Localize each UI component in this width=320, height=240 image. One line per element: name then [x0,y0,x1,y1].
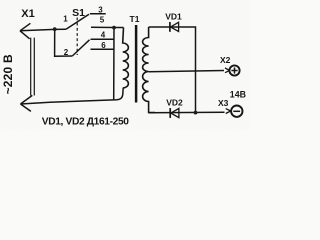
svg-text:VD1: VD1 [165,12,182,22]
svg-text:14В: 14В [230,89,246,99]
svg-text:3: 3 [98,6,103,15]
svg-text:2: 2 [64,48,69,57]
svg-text:S1: S1 [72,7,85,19]
svg-text:X3: X3 [218,98,229,108]
svg-text:T1: T1 [130,14,140,24]
svg-text:VD2: VD2 [166,98,183,108]
svg-text:1: 1 [63,14,68,23]
svg-text:4: 4 [101,31,106,40]
svg-text:VD1, VD2 Д161-250: VD1, VD2 Д161-250 [42,116,130,127]
svg-text:~220 В: ~220 В [1,54,15,94]
svg-text:6: 6 [101,41,106,50]
svg-text:5: 5 [100,16,105,25]
svg-text:X1: X1 [21,8,34,20]
svg-text:X2: X2 [220,55,231,65]
